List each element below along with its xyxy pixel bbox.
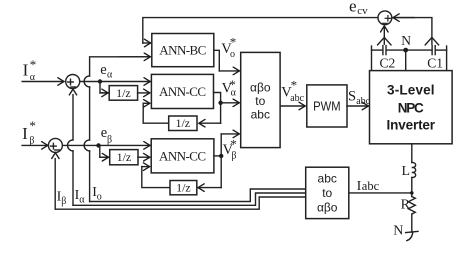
- svg-text:cv: cv: [357, 5, 368, 17]
- svg-text:o: o: [230, 49, 235, 60]
- svg-text:ANN-BC: ANN-BC: [159, 43, 206, 58]
- svg-text:1/z: 1/z: [176, 180, 191, 194]
- wire e_alpha to delay 1/z: [100, 82, 108, 93]
- wire feedback Z2 to ANN-CC input 3: [143, 103, 169, 123]
- svg-text:L: L: [402, 164, 411, 179]
- svg-text:1/z: 1/z: [116, 86, 131, 100]
- svg-text:1/z: 1/z: [117, 150, 132, 164]
- wire e_beta to ANN-CC input 1: [62, 144, 149, 146]
- inductor L1: [412, 162, 416, 177]
- svg-text:I: I: [22, 124, 28, 143]
- minus sign in U9: [55, 149, 60, 151]
- node V*alpha junction: [218, 101, 222, 105]
- svg-text:α: α: [231, 88, 237, 99]
- block U3 PWM: [307, 85, 347, 127]
- block Z4 delay 1/z: [170, 181, 197, 195]
- wire I_o hop over e_alpha: [84, 76, 90, 87]
- svg-text:C1: C1: [427, 55, 443, 70]
- svg-text:C2: C2: [380, 55, 396, 70]
- svg-text:N: N: [393, 224, 403, 239]
- svg-text:e: e: [100, 62, 106, 78]
- wire I_beta feedback up into U9: [54, 159, 56, 210]
- wire C2 voltage sense into U4 bottom: [383, 26, 385, 44]
- wire V*alpha to converter: [221, 102, 239, 104]
- svg-text:*: *: [230, 35, 237, 50]
- plus sign in U4: [385, 17, 390, 19]
- resistor R1: [408, 197, 415, 215]
- wire ANN-BC output V*o: [214, 50, 220, 71]
- svg-text:*: *: [291, 78, 298, 93]
- arrow C2 voltage measurement: [378, 37, 391, 45]
- wire V*abc from converter to PWM: [280, 105, 305, 107]
- svg-text:β: β: [61, 196, 66, 207]
- wire Sabc from PWM to inverter: [347, 105, 368, 107]
- node label V*beta: [223, 137, 237, 162]
- wire Z3 to ANN-CC input 2: [138, 156, 149, 158]
- wire I_alpha feedback up into U8: [72, 95, 74, 140]
- capacitor C2: [382, 46, 384, 55]
- plus sign in U8: [68, 81, 74, 83]
- wire I_alpha bus bottom: [73, 193, 306, 205]
- wire I_o hop over e_beta: [84, 140, 90, 151]
- svg-text:α: α: [79, 194, 85, 205]
- minus sign in U8: [71, 86, 75, 88]
- svg-text:abc: abc: [290, 93, 304, 104]
- node label e_cv: [349, 0, 368, 17]
- svg-text:abc: abc: [356, 96, 370, 107]
- ground neutral hook: [407, 232, 413, 241]
- block U1 ANN-BC: [152, 34, 214, 67]
- plus sign in U9: [51, 145, 57, 147]
- wire ANN-CC alpha output V*alpha: [214, 93, 221, 124]
- svg-text:αβο: αβο: [250, 81, 271, 95]
- wire I_alpha hop over e_beta: [68, 140, 74, 151]
- wire I_o feedback to ANN-BC input 2: [89, 151, 91, 202]
- wire e_beta to delay 1/z: [100, 145, 108, 157]
- node label V*alpha: [222, 77, 237, 98]
- block U6 ANN-CC alpha: [151, 74, 213, 108]
- node label V*o: [221, 35, 236, 60]
- wire inverter output: [411, 144, 413, 163]
- wire I*beta into summing junction: [22, 144, 47, 146]
- summing junction U9 beta: [48, 138, 62, 152]
- value label C2: [380, 55, 396, 70]
- node label I*alpha reference: [23, 57, 37, 83]
- value label L: [402, 164, 411, 179]
- node N neutral point junction: [403, 48, 408, 53]
- wire C1 voltage sense into U4 right: [393, 18, 432, 45]
- wire e_alpha to ANN-CC input 1: [80, 81, 150, 83]
- wire DC bus left leg: [371, 46, 373, 71]
- node label N: [393, 224, 403, 239]
- svg-text:ANN-CC: ANN-CC: [159, 148, 206, 163]
- wire Iabc measurement: [349, 192, 412, 194]
- node label I_o: [92, 185, 102, 202]
- node label V*abc: [281, 78, 304, 104]
- wire I_o bus bottom: [90, 189, 306, 202]
- svg-text:to: to: [322, 186, 332, 200]
- wire DC bus right leg: [446, 46, 448, 71]
- wire neutral point to inverter: [405, 50, 407, 71]
- wire ANN-CC beta output V*beta: [214, 155, 221, 157]
- minus sign in U4: [383, 22, 387, 24]
- wire I_beta bus bottom: [55, 197, 306, 209]
- wire L to R: [411, 178, 413, 197]
- svg-text:αβo: αβo: [317, 201, 338, 215]
- svg-text:*: *: [29, 118, 36, 133]
- node label Iabc: [357, 179, 380, 194]
- wire DC bus: [372, 49, 383, 51]
- summing junction U8 alpha: [66, 75, 80, 89]
- svg-text:PWM: PWM: [313, 98, 341, 113]
- node e_beta junction: [96, 143, 100, 147]
- svg-text:β: β: [231, 151, 236, 162]
- block Z2 delay 1/z: [169, 116, 197, 131]
- svg-text:3-Level: 3-Level: [387, 83, 435, 98]
- value label C1: [427, 55, 443, 70]
- wire e_cv into ANN-BC input 1: [143, 42, 150, 44]
- wire I*alpha into summing junction: [22, 81, 63, 83]
- block U2 alpha-beta-o to abc converter: [241, 52, 280, 147]
- svg-text:I: I: [23, 61, 29, 80]
- svg-text:α: α: [107, 70, 113, 81]
- wire V*beta to converter: [221, 133, 239, 135]
- block U10 abc to alpha-beta-o converter: [306, 167, 349, 218]
- svg-text:β: β: [107, 135, 112, 146]
- node Iabc junction: [410, 191, 414, 195]
- svg-text:to: to: [255, 94, 265, 108]
- wire feedback Z4 to ANN-CC input 3: [142, 167, 170, 188]
- svg-text:N: N: [401, 33, 411, 48]
- svg-text:o: o: [97, 192, 102, 203]
- svg-text:1/z: 1/z: [175, 116, 190, 130]
- node label I_beta: [57, 190, 67, 208]
- block U5 3-Level NPC Inverter: [370, 71, 453, 144]
- node label e_beta: [101, 125, 112, 146]
- svg-text:abc: abc: [318, 172, 337, 186]
- node V*beta junction: [219, 154, 223, 158]
- block Z1 delay 1/z: [109, 86, 137, 101]
- svg-text:ANN-CC: ANN-CC: [159, 84, 206, 99]
- node label I_alpha: [75, 188, 86, 205]
- svg-text:NPC: NPC: [398, 100, 424, 115]
- node label Sabc: [348, 88, 371, 107]
- node label e_alpha: [100, 62, 113, 81]
- arrow C1 voltage measurement: [425, 37, 438, 45]
- wire Z1 to ANN-CC input 2: [138, 92, 150, 94]
- value label R: [401, 198, 411, 213]
- svg-text:*: *: [230, 137, 237, 152]
- capacitor C1: [431, 46, 433, 55]
- summing junction U4 (capacitor voltage error): [378, 11, 392, 25]
- node e_alpha junction: [98, 79, 102, 83]
- wire e_cv feedback top line: [143, 18, 378, 43]
- block Z3 delay 1/z: [110, 150, 138, 165]
- svg-text:S: S: [348, 88, 356, 104]
- svg-text:abc: abc: [251, 107, 270, 121]
- svg-text:abc: abc: [362, 179, 380, 193]
- svg-text:*: *: [30, 57, 37, 72]
- wire R to neutral: [411, 214, 413, 232]
- svg-text:e: e: [349, 0, 357, 16]
- svg-text:R: R: [401, 198, 411, 213]
- block U7 ANN-CC beta: [151, 139, 214, 173]
- svg-text:Inverter: Inverter: [387, 118, 436, 133]
- ground neutral tick: [406, 231, 418, 232]
- node label N: [401, 33, 411, 48]
- node label I*beta reference: [22, 118, 36, 147]
